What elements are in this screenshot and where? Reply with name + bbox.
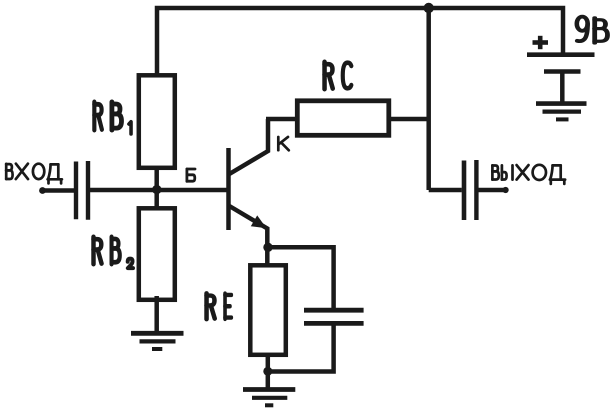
transistor Q1 emitter lead	[229, 206, 268, 265]
wire emitter junction to bypass cap	[268, 247, 334, 309]
node RE bottom junction	[263, 367, 272, 376]
label RB1	[94, 102, 131, 134]
wire collector to RC	[266, 117, 297, 122]
wire main vertical from rail to output	[426, 8, 431, 190]
node top-rail junction	[424, 3, 434, 13]
resistor RB1	[139, 75, 175, 168]
label RB2	[94, 237, 133, 268]
battery BT1 negative plate	[544, 69, 581, 74]
label RC	[325, 62, 352, 89]
node emitter junction	[263, 243, 272, 252]
capacitor input coupling	[76, 161, 88, 220]
wire RB1 bottom stem	[154, 167, 159, 188]
label 9В	[577, 17, 608, 43]
wire RB2 top stem	[154, 190, 159, 210]
label ВХОД	[6, 164, 62, 184]
resistor RE	[250, 265, 285, 355]
wire top supply rail with drops to RB1 and battery	[157, 8, 563, 74]
label К	[278, 137, 289, 150]
label Б	[187, 169, 195, 181]
wire output lead	[478, 188, 505, 193]
battery BT1 9V plus sign	[533, 36, 549, 49]
node output terminal	[503, 187, 509, 193]
resistor RC	[297, 101, 389, 136]
transistor Q1 base bar	[226, 148, 231, 230]
ground below RE	[243, 390, 295, 406]
ground below battery	[536, 104, 587, 120]
wire RB2 bottom stem	[154, 296, 159, 333]
battery BT1 positive plate	[527, 52, 595, 57]
capacitor CE bypass	[304, 310, 364, 323]
transistor Q1 emitter arrowhead	[251, 215, 267, 228]
capacitor output coupling	[464, 160, 476, 220]
resistor RB2	[139, 208, 175, 299]
ground below RB2	[131, 333, 184, 349]
transistor Q1 collector lead	[229, 119, 269, 175]
label RE	[207, 293, 232, 319]
wire input lead	[43, 188, 75, 193]
wire base horizontal	[89, 188, 229, 193]
wire RC to main vertical	[389, 117, 429, 122]
node input terminal	[39, 187, 46, 194]
wire output horizontal	[429, 188, 462, 193]
wire RE bottom stem	[266, 353, 271, 389]
node base junction Б	[152, 185, 161, 194]
wire battery to ground	[560, 72, 565, 104]
wire bypass cap to bottom	[268, 324, 334, 372]
label ВЫХОД	[492, 165, 565, 184]
